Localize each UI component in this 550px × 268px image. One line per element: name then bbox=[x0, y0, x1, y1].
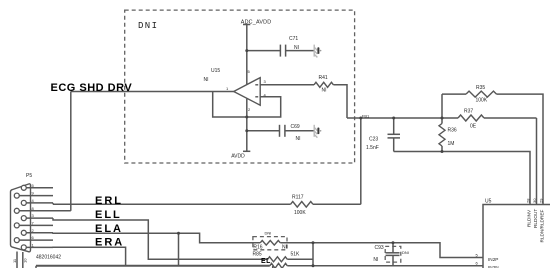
svg-text:1.5nF: 1.5nF bbox=[366, 145, 379, 151]
svg-text:C93: C93 bbox=[375, 245, 384, 251]
svg-text:29: 29 bbox=[539, 198, 544, 203]
svg-text:R117: R117 bbox=[292, 195, 304, 201]
svg-text:FB1: FB1 bbox=[362, 113, 370, 118]
svg-text:RLDINV: RLDINV bbox=[526, 209, 531, 227]
svg-text:NI: NI bbox=[373, 257, 378, 263]
svg-text:ERL: ERL bbox=[95, 195, 123, 207]
svg-text:C69: C69 bbox=[291, 124, 300, 130]
svg-text:DNI: DNI bbox=[265, 231, 272, 236]
svg-text:U15: U15 bbox=[211, 68, 220, 74]
svg-text:NI: NI bbox=[294, 45, 299, 51]
svg-text:ADC_AVDD: ADC_AVDD bbox=[241, 19, 272, 25]
svg-text:P5: P5 bbox=[26, 173, 32, 179]
svg-text:R85: R85 bbox=[253, 252, 262, 258]
svg-text:ELL: ELL bbox=[95, 209, 122, 221]
svg-text:482016042: 482016042 bbox=[36, 255, 61, 261]
svg-text:ERA: ERA bbox=[95, 237, 124, 249]
svg-text:NI: NI bbox=[322, 88, 327, 94]
svg-text:R35: R35 bbox=[476, 85, 485, 91]
svg-text:EL: EL bbox=[261, 258, 271, 265]
svg-text:R41: R41 bbox=[319, 75, 328, 81]
svg-text:DNI: DNI bbox=[402, 250, 409, 255]
svg-text:C71: C71 bbox=[289, 36, 298, 42]
svg-text:100K: 100K bbox=[294, 210, 306, 216]
svg-text:U5: U5 bbox=[485, 198, 492, 204]
svg-text:28: 28 bbox=[526, 198, 531, 203]
svg-text:R37: R37 bbox=[464, 109, 473, 115]
svg-text:NI: NI bbox=[296, 136, 301, 142]
svg-text:R16: R16 bbox=[253, 244, 262, 250]
svg-text:RLDN/RLDREF: RLDN/RLDREF bbox=[539, 210, 544, 243]
svg-text:1M: 1M bbox=[448, 141, 455, 147]
svg-text:100K: 100K bbox=[476, 98, 488, 104]
svg-text:51K: 51K bbox=[291, 252, 301, 258]
svg-text:DNI: DNI bbox=[138, 21, 158, 31]
svg-text:C23: C23 bbox=[369, 137, 378, 143]
svg-text:R36: R36 bbox=[448, 128, 457, 134]
svg-text:ECG SHD DRV: ECG SHD DRV bbox=[51, 82, 133, 94]
svg-text:NI: NI bbox=[204, 77, 209, 83]
svg-text:IN2P: IN2P bbox=[488, 257, 498, 262]
svg-text:RLDOUT: RLDOUT bbox=[533, 209, 538, 228]
svg-text:ELA: ELA bbox=[95, 223, 123, 235]
svg-text:0E: 0E bbox=[470, 124, 477, 130]
svg-text:10: 10 bbox=[23, 258, 28, 263]
svg-text:NI: NI bbox=[282, 244, 287, 250]
svg-text:30: 30 bbox=[532, 198, 537, 203]
svg-text:AVDD: AVDD bbox=[231, 153, 245, 159]
